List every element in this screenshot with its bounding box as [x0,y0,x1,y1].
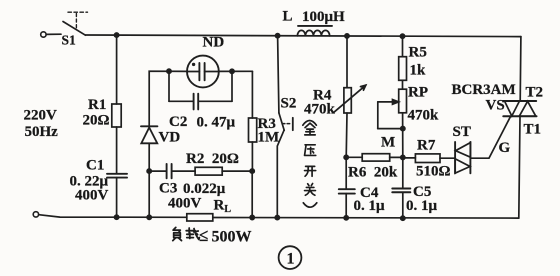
load resistor RL [187,214,213,221]
svg-text:BCR3AM: BCR3AM [452,82,516,98]
node [345,34,349,38]
svg-text:T1: T1 [524,122,542,138]
wire bottom rail [39,215,187,218]
node [230,69,234,73]
node [275,216,279,220]
svg-text:1M: 1M [258,130,280,146]
svg-text:R2 20Ω: R2 20Ω [186,151,239,167]
wire C2 left stub [168,71,170,101]
svg-text:0. 1μ: 0. 1μ [406,198,438,214]
node [250,215,254,219]
svg-text:R7: R7 [417,138,436,154]
label ya (压) [305,145,316,156]
svg-text:T2: T2 [526,85,544,101]
svg-text:100μH: 100μH [302,9,345,25]
wire [46,33,61,35]
svg-text:S1: S1 [62,33,77,48]
capacitor C3 [149,164,171,178]
label quan (全) [305,123,315,135]
node [401,216,405,220]
node [147,169,151,173]
node M [401,155,405,159]
resistor R1 [112,35,121,174]
svg-text:400V: 400V [75,188,109,204]
svg-text:VS: VS [486,98,505,114]
svg-text:0. 1μ: 0. 1μ [354,198,386,214]
capacitor C2 [169,94,232,110]
terminal top-left [41,32,46,37]
wire triac column [519,37,522,101]
svg-text:S2: S2 [281,96,297,112]
switch S1 [63,12,88,35]
label zai (载) [186,228,199,239]
svg-text:≤500W: ≤500W [199,226,252,246]
node [400,34,404,38]
svg-text:510Ω: 510Ω [416,164,451,180]
wire gate [470,116,510,158]
resistor R6 [346,154,403,161]
node [344,216,348,220]
svg-text:L: L [283,9,293,25]
resistor R3 [249,71,257,171]
svg-text:0. 47μ: 0. 47μ [197,115,236,131]
svg-text:G: G [499,140,511,156]
node [147,215,151,219]
resistor R2 [172,167,252,175]
node [115,33,119,37]
node [401,127,405,131]
svg-text:1: 1 [287,251,295,268]
svg-text:50Hz: 50Hz [25,124,59,140]
diode VD [141,126,157,171]
CJK glyph paths [173,121,317,241]
wire [251,171,253,217]
svg-text:R5: R5 [409,45,427,61]
wire C2 right stub [231,71,233,101]
triac VS [503,101,537,116]
svg-text:220V: 220V [24,108,58,124]
label fu (负) [173,227,182,240]
resistor R5 [399,36,407,89]
switch S2 [277,36,293,218]
svg-text:C1: C1 [86,158,104,174]
wire VD column top [149,71,187,126]
node [344,155,348,159]
svg-text:C2: C2 [169,114,187,130]
node [167,69,171,73]
terminal bottom-left [33,212,38,217]
svg-text:470k: 470k [408,108,440,124]
svg-text:1k: 1k [410,63,427,79]
label paren top [303,121,317,126]
wire [148,171,150,217]
potentiometer RP [378,89,407,157]
svg-text:20Ω: 20Ω [83,113,110,129]
label kai (开) [305,166,316,176]
node [276,34,280,38]
rheostat R4 [334,36,366,157]
svg-text:400V: 400V [168,196,202,212]
svg-text:RP: RP [408,85,428,101]
capacitor C4 [339,157,355,218]
svg-text:R6 20k: R6 20k [348,165,398,181]
diac ST [455,142,470,173]
node [250,169,254,173]
svg-text:ND: ND [203,35,225,51]
resistor R7 [403,154,455,163]
svg-text:VD: VD [159,130,181,146]
label guan (关) [305,184,316,196]
svg-text:M: M [381,135,395,151]
capacitor C5 [392,157,410,218]
svg-text:470k: 470k [304,102,336,118]
svg-text:R1: R1 [88,97,106,113]
svg-text:C3: C3 [159,181,177,197]
figure number circle [279,246,302,269]
label paren bottom [303,203,317,207]
svg-text:ST: ST [453,124,471,140]
wire ND right [219,70,253,72]
wire bottom rail right [213,217,519,220]
neon lamp ND [187,56,219,88]
wire top rail [85,35,521,37]
capacitor C1 [107,174,127,218]
inductor L [297,26,332,36]
node [115,215,119,219]
